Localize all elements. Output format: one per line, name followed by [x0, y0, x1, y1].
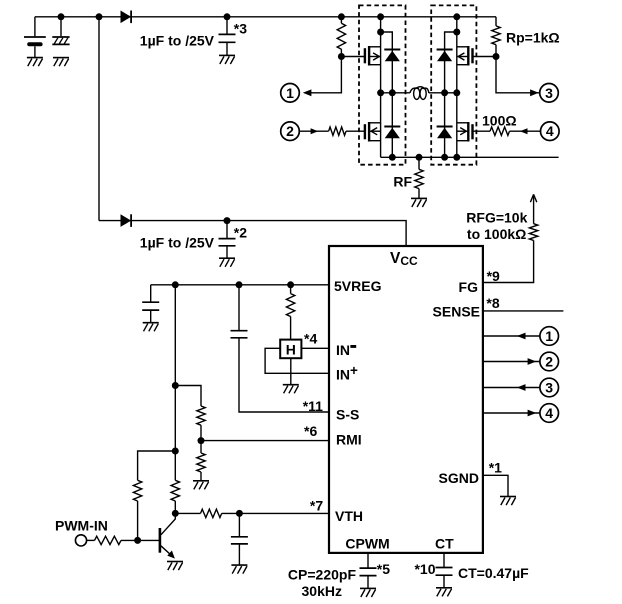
- wire PWM circle to R10: [87, 539, 95, 541]
- ground under C5: [143, 323, 159, 332]
- arrow IC terminal 4: [528, 410, 537, 417]
- node RMI-A: [172, 382, 179, 389]
- resistor RF: [415, 157, 423, 198]
- node supply junction B: [96, 13, 103, 20]
- wire left branch: [138, 451, 176, 480]
- resistor R2 (gate series left): [329, 127, 346, 135]
- wire R2 to M2 gate: [346, 130, 365, 132]
- dashed box bridge right: [431, 5, 476, 164]
- wire SGND pin: [483, 475, 508, 496]
- wire diode branch bottom-left: [391, 93, 393, 158]
- wire R5 to node: [200, 425, 202, 440]
- diode D4 (body, lower-left): [384, 127, 400, 139]
- node D4 bottom: [389, 154, 396, 161]
- wire H ground stem: [290, 358, 292, 384]
- capacitor C4 lead: [226, 221, 228, 239]
- svg-text:CPWM: CPWM: [345, 536, 389, 552]
- svg-text:H: H: [286, 341, 296, 357]
- resistor Rp: [492, 17, 500, 57]
- wire VTH pin: [239, 512, 329, 514]
- arrow on terminal 4 wire: [520, 128, 528, 134]
- node C4 junction: [224, 217, 231, 224]
- svg-text:SENSE: SENSE: [433, 304, 480, 320]
- hall sensor H1 box: [280, 340, 301, 359]
- svg-text:IN+: IN+: [336, 363, 358, 383]
- ground under C9: [436, 588, 452, 597]
- svg-text:*9: *9: [487, 268, 500, 284]
- node supply junction A: [58, 13, 65, 20]
- arrow IC terminal 1: [517, 333, 526, 340]
- capacitor C7: [231, 537, 248, 544]
- svg-text:*2: *2: [234, 225, 247, 241]
- transistor M4 (lower-right FET): [457, 122, 473, 142]
- resistor R10 (base series): [95, 536, 122, 544]
- node V2 diode tap: [453, 29, 460, 36]
- resistor RFG: [529, 224, 537, 241]
- node VTH-A: [172, 448, 179, 455]
- transistor M3 (upper-right FET): [457, 46, 473, 66]
- svg-text:VCC: VCC: [390, 250, 418, 268]
- node RF tap: [416, 154, 423, 161]
- ground under C7: [231, 565, 247, 574]
- svg-text:*7: *7: [310, 497, 323, 513]
- svg-text:to 100kΩ: to 100kΩ: [467, 226, 526, 242]
- node D3 mid: [389, 89, 396, 96]
- node VTH-C: [236, 510, 243, 517]
- wire from node B down: [98, 17, 100, 221]
- node V1 rail: [377, 13, 384, 20]
- svg-text:Rp=1kΩ: Rp=1kΩ: [506, 29, 560, 45]
- capacitor C6 lead: [238, 285, 240, 331]
- node D6 bottom: [441, 154, 448, 161]
- svg-text:3: 3: [545, 85, 553, 101]
- resistor R8: [171, 480, 179, 501]
- ground under C4: [219, 258, 235, 267]
- svg-text:*1: *1: [489, 459, 502, 475]
- node VTH-B: [172, 510, 179, 517]
- terminal 3 right: [540, 84, 559, 103]
- wire C8 to ground: [367, 576, 369, 589]
- svg-text:VTH: VTH: [335, 508, 363, 524]
- capacitor C2 (hatched) lead: [60, 17, 62, 37]
- wire VCC row: [99, 221, 406, 246]
- arrow Q1 emitter: [167, 551, 175, 559]
- resistor R3 100ohm: [490, 127, 510, 135]
- capacitor C2 plates: [52, 37, 69, 44]
- capacitor C3 lower lead: [226, 42, 228, 55]
- diode D6 (body, lower-right): [437, 127, 453, 139]
- node 5VREG-A: [172, 281, 179, 288]
- terminal 1 left: [281, 84, 300, 103]
- transistor Q1 emitter: [161, 546, 174, 558]
- wire C6 to S-S pin: [239, 338, 329, 412]
- wire FG pin: [483, 240, 534, 282]
- wire R10 to base node: [121, 539, 138, 541]
- diode D3 (body, upper-left): [384, 50, 400, 62]
- ground under C3: [219, 55, 235, 64]
- wire terminal 1 drop: [307, 57, 341, 93]
- svg-text:4: 4: [546, 123, 554, 139]
- terminal 2 left: [281, 122, 300, 141]
- wire H to IN+ pin: [265, 348, 329, 373]
- node V1 diode tap: [377, 29, 384, 36]
- node Rp bottom: [493, 53, 500, 60]
- terminal 4 right: [541, 122, 560, 141]
- capacitor C1 (electrolytic) lead: [34, 17, 36, 37]
- wire CPWM pin: [367, 553, 369, 568]
- transistor Q1 collector: [161, 513, 175, 534]
- svg-text:CT=0.47µF: CT=0.47µF: [458, 565, 529, 581]
- node V2 rail: [453, 13, 460, 20]
- wire base node to Q1: [138, 539, 160, 541]
- arrow RFG up: [530, 194, 536, 202]
- node base: [134, 537, 141, 544]
- wire diode branch top-right: [445, 32, 457, 93]
- wire node to R6: [200, 441, 202, 453]
- wire RMI pin: [201, 440, 329, 442]
- wire IC terminal 4: [483, 412, 540, 414]
- node C3 junction: [224, 13, 231, 20]
- svg-text:1µF to /25V: 1µF to /25V: [140, 235, 215, 251]
- terminal PWM-IN open circle: [75, 535, 86, 546]
- transistor M2 (lower-left FET): [365, 122, 381, 142]
- transistor Q1 base bar: [159, 528, 162, 553]
- svg-text:CT: CT: [435, 536, 454, 552]
- wire terminal 3 drop: [496, 57, 540, 93]
- wire CT pin: [443, 553, 445, 568]
- wire IC terminal 1: [483, 335, 540, 337]
- wire R8 down: [174, 501, 176, 513]
- capacitor C4: [219, 239, 236, 246]
- svg-text:2: 2: [545, 354, 553, 370]
- svg-text:RFG=10k: RFG=10k: [466, 209, 527, 225]
- wire R9 to node: [222, 512, 240, 514]
- node V2 bottom: [453, 154, 460, 161]
- wire RFG up: [533, 194, 535, 223]
- capacitor C4 lower lead: [226, 246, 228, 258]
- arrow into terminal 3: [530, 89, 539, 96]
- ground under H1: [283, 385, 299, 394]
- ground under R6: [193, 481, 209, 490]
- capacitor C8 (CPWM): [360, 568, 377, 576]
- svg-text:1: 1: [545, 328, 553, 344]
- svg-text:CP=220pF: CP=220pF: [288, 566, 357, 582]
- arrow IC terminal 3: [517, 384, 526, 391]
- node 5VREG-C: [287, 281, 294, 288]
- svg-text:3: 3: [545, 380, 553, 396]
- wire RMI-A down: [174, 386, 176, 452]
- transistor M1 (upper-left FET): [365, 46, 381, 66]
- wire top VCC rail: [35, 16, 496, 18]
- wire bottom bridge rail: [381, 156, 559, 158]
- wire motor mid left: [381, 92, 410, 94]
- terminal 4 at IC: [540, 404, 559, 423]
- wire VTH-A down: [174, 451, 176, 480]
- ground under C2: [53, 58, 69, 67]
- wire main vertical right half-bridge: [456, 17, 458, 158]
- svg-text:PWM-IN: PWM-IN: [55, 518, 108, 534]
- node 5VREG-B: [236, 281, 243, 288]
- arrow into terminal 1: [303, 89, 312, 96]
- diode D2: [121, 214, 132, 227]
- wire R7 down: [137, 501, 139, 540]
- wire IC terminal 3: [483, 387, 540, 389]
- resistor R7: [133, 480, 141, 501]
- diode D5 (body, upper-right): [437, 50, 453, 62]
- svg-text:1: 1: [286, 85, 294, 101]
- dashed box bridge left: [359, 5, 406, 164]
- node V2 mid: [453, 89, 460, 96]
- wire M4 gate to resistor: [473, 130, 491, 132]
- svg-text:IN: IN: [336, 342, 350, 358]
- svg-text:SGND: SGND: [439, 470, 479, 486]
- wire R6 to ground: [200, 472, 202, 481]
- ground under Q1: [167, 562, 183, 571]
- capacitor C5 lead: [150, 285, 152, 302]
- svg-text:*4: *4: [304, 330, 317, 346]
- wire diode branch bottom-right: [444, 93, 446, 158]
- svg-text:*3: *3: [234, 20, 247, 36]
- ground under RF: [411, 198, 427, 207]
- wire R1 to M1 gate: [341, 56, 365, 58]
- svg-text:30kHz: 30kHz: [302, 583, 342, 599]
- svg-text:5VREG: 5VREG: [334, 278, 382, 294]
- wire C9 to ground: [443, 575, 445, 587]
- node R1 top: [338, 13, 345, 20]
- wire IC terminal 2: [483, 361, 540, 363]
- svg-text:100Ω: 100Ω: [482, 112, 517, 128]
- ground SGND: [500, 497, 516, 506]
- wire Rp to M3 gate: [473, 56, 497, 58]
- op-amp U1 IC body: [329, 246, 483, 553]
- capacitor C6: [231, 331, 248, 338]
- capacitor C9 (CT): [436, 568, 453, 576]
- capacitor C5: [142, 302, 159, 310]
- resistor R4 (H bias): [286, 285, 294, 340]
- wire diode branch top-left: [381, 32, 393, 93]
- node R1 bottom: [338, 53, 345, 60]
- terminal 3 at IC: [540, 378, 559, 397]
- wire main vertical left half-bridge: [380, 17, 382, 158]
- wire H to IN- pin: [301, 347, 329, 349]
- inductor motor winding: [410, 87, 429, 100]
- svg-text:RMI: RMI: [336, 432, 362, 448]
- svg-text:FG: FG: [459, 279, 479, 295]
- capacitor C5 lower lead: [150, 310, 152, 322]
- svg-text:RF: RF: [393, 174, 412, 190]
- svg-text:1µF to /25V: 1µF to /25V: [140, 32, 215, 48]
- svg-text:*10: *10: [414, 561, 435, 577]
- arrow IC terminal 2: [528, 358, 537, 365]
- svg-text:*5: *5: [377, 561, 390, 577]
- capacitor C3: [219, 34, 236, 42]
- resistor R6: [197, 453, 205, 472]
- wire 5VREG-A down: [174, 285, 176, 386]
- svg-text:S-S: S-S: [336, 407, 359, 423]
- wire SENSE pin: [483, 310, 564, 312]
- wire terminal 2 to resistor: [299, 130, 328, 132]
- wire to R5: [175, 386, 201, 407]
- capacitor C3 lead: [226, 17, 228, 35]
- wire VTH-B to R9: [175, 512, 200, 514]
- wire 5VREG pin: [151, 284, 329, 286]
- capacitor C1 plates: [24, 37, 46, 57]
- svg-text:*6: *6: [304, 423, 317, 439]
- svg-text:*8: *8: [486, 295, 499, 311]
- resistor R1 (gate pullup left): [337, 17, 345, 57]
- node V1 mid: [377, 89, 384, 96]
- terminal 1 at IC: [540, 327, 559, 346]
- terminal 2 at IC: [540, 352, 559, 371]
- node D5 mid: [441, 89, 448, 96]
- svg-text:*11: *11: [303, 398, 323, 414]
- wire R3 to terminal 4: [510, 130, 541, 132]
- capacitor C7 lower lead: [238, 544, 240, 565]
- resistor R5: [197, 406, 205, 425]
- svg-text:2: 2: [286, 123, 294, 139]
- node RMI-B: [198, 437, 205, 444]
- wire motor mid right: [429, 92, 457, 94]
- svg-text:4: 4: [545, 405, 553, 421]
- ground under C1: [27, 58, 43, 67]
- arrow on terminal 2 wire: [311, 128, 319, 134]
- diode D1: [121, 11, 132, 24]
- resistor R9 (VTH series): [201, 509, 222, 517]
- capacitor C7 lead: [238, 513, 240, 536]
- ground under C8: [360, 588, 376, 597]
